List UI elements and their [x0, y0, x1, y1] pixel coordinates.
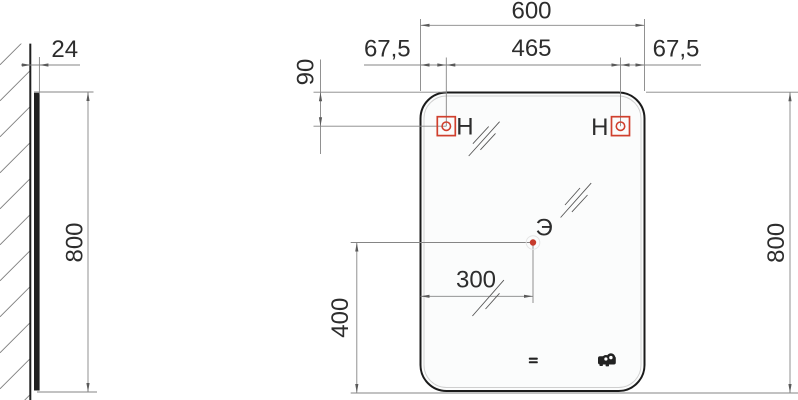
dimension 300 (sensor offset from left) [421, 243, 534, 304]
dimension row 67,5 / 465 / 67,5 [364, 35, 701, 126]
svg-text:90: 90 [293, 59, 320, 86]
touch sensor icon [529, 358, 538, 364]
glass mark group 1 [469, 122, 500, 156]
dimension 400 (sensor height from bottom) [327, 243, 798, 394]
svg-text:800: 800 [61, 222, 88, 262]
svg-text:Э: Э [536, 215, 553, 242]
glass mark group 2 [561, 183, 592, 217]
mirror front view outline [421, 93, 645, 392]
svg-text:600: 600 [511, 0, 551, 25]
svg-text:H: H [591, 114, 608, 141]
wall line [29, 44, 31, 400]
svg-text:400: 400 [327, 298, 354, 338]
dimension 600 (overall width) [421, 0, 645, 91]
dimension 800 right (overall height) [646, 92, 798, 393]
svg-text:67,5: 67,5 [653, 36, 700, 63]
dimension 24 (mirror depth) [21, 36, 80, 94]
mirror inner contour [424, 96, 641, 388]
wall hatching [0, 35, 30, 400]
dimension 800 left (profile height) [34, 92, 97, 392]
hanger H2 (right) [612, 117, 630, 136]
sensor point [526, 236, 540, 250]
hanger H1 (left) [437, 117, 455, 136]
mirror side profile bar [34, 93, 40, 391]
svg-text:67,5: 67,5 [364, 36, 411, 63]
dimension 90 (hanger offset from top) [293, 59, 448, 154]
svg-text:465: 465 [511, 35, 551, 62]
svg-text:300: 300 [456, 267, 496, 294]
svg-text:H: H [456, 114, 473, 141]
brand logo [598, 353, 616, 366]
svg-text:800: 800 [763, 223, 790, 263]
svg-text:24: 24 [51, 36, 78, 63]
glass mark group 3 [472, 280, 504, 316]
